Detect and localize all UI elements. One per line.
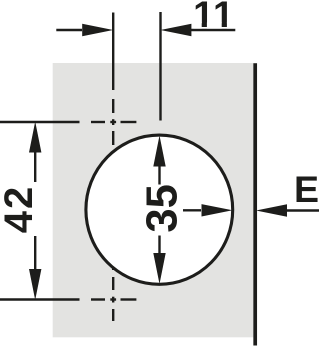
top screw hole center cross xyxy=(110,119,116,125)
screw hole axis center line (vertical dash-dot) xyxy=(112,13,114,322)
svg-text:42: 42 xyxy=(0,185,41,234)
top screw hole horizontal center line (dash-dot) xyxy=(0,121,136,123)
svg-text:11: 11 xyxy=(193,0,235,35)
bottom screw hole center cross xyxy=(110,297,116,303)
cup hole vertical center line xyxy=(159,12,161,121)
dimension 42 bottom arrow xyxy=(29,236,41,300)
label 11 xyxy=(193,0,235,35)
cup hole circle Ø35 xyxy=(86,135,233,284)
dimension E arrow xyxy=(256,204,319,216)
bottom screw hole horizontal center line (dash-dot) xyxy=(0,298,136,300)
dimension 42 top arrow xyxy=(29,122,41,183)
dimension 35 up arrow xyxy=(153,136,165,185)
dimension 11 left arrow xyxy=(56,24,113,36)
dimension 35 down arrow xyxy=(153,236,165,285)
svg-text:E: E xyxy=(294,168,319,210)
arrow to cup hole edge xyxy=(183,204,233,216)
door panel xyxy=(53,63,257,337)
panel front edge line xyxy=(253,63,257,345)
dimension 11 right arrow xyxy=(160,24,235,36)
svg-text:35: 35 xyxy=(138,184,186,232)
